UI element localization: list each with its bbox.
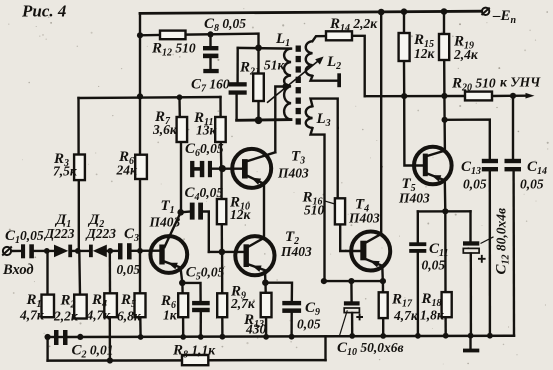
svg-text:2,7к: 2,7к [230,296,256,311]
svg-text:П403: П403 [398,191,430,206]
svg-text:Рис. 4: Рис. 4 [21,2,66,21]
svg-text:13к: 13к [196,123,218,138]
svg-text:П403: П403 [277,166,309,181]
svg-text:4,7к: 4,7к [86,308,112,323]
svg-text:12к: 12к [414,46,436,61]
svg-text:51к: 51к [264,58,286,73]
svg-text:П403: П403 [149,215,181,230]
svg-text:0,05: 0,05 [297,317,321,332]
svg-text:1,8к: 1,8к [420,308,445,323]
svg-text:7,5к: 7,5к [53,164,78,179]
svg-text:П403: П403 [348,211,380,226]
svg-text:Д223: Д223 [85,226,117,241]
svg-text:Д223: Д223 [43,226,75,241]
svg-text:6,8к: 6,8к [117,309,142,324]
svg-text:24к: 24к [116,163,139,178]
svg-text:0,05: 0,05 [117,262,141,277]
svg-text:12к: 12к [230,207,252,222]
svg-text:0,05: 0,05 [422,258,446,273]
svg-text:4,7к: 4,7к [393,308,419,323]
svg-text:0,05: 0,05 [463,177,487,192]
svg-text:2,4к: 2,4к [453,47,479,62]
svg-text:П403: П403 [280,244,312,259]
svg-text:4,7к: 4,7к [19,308,45,323]
svg-text:510: 510 [304,203,325,218]
svg-text:430: 430 [245,322,267,337]
svg-text:0,05: 0,05 [520,177,544,192]
svg-text:Вход: Вход [2,262,34,278]
svg-text:3,6к: 3,6к [152,122,178,137]
svg-text:к УНЧ: к УНЧ [500,75,541,90]
svg-text:1к: 1к [163,308,178,323]
svg-text:2,2к: 2,2к [53,309,79,324]
